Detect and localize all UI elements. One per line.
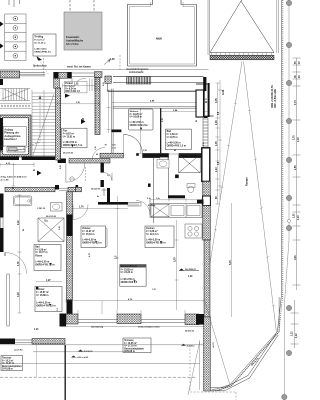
washbasin [51,203,63,212]
south east corner pier [185,314,199,325]
main stair flight treads [32,90,56,160]
svg-text:20.0/20.02: 20.0/20.02 [84,351,93,353]
svg-text:westl. Rst.: westl. Rst. [14,349,24,352]
top mid dashed guide [43,58,45,75]
center dims [73,207,128,209]
south window 1 [78,320,117,323]
svg-text:1,97: 1,97 [46,280,51,282]
svg-text:3,19: 3,19 [18,292,20,297]
facade pier stub [112,130,122,133]
south window 2 [141,320,185,323]
svg-text:90: 90 [196,120,198,122]
svg-text:beachten !: beachten ! [4,138,17,141]
corridor north wall [69,159,110,164]
left edge wall bits [0,140,6,148]
svg-text:86: 86 [174,150,176,152]
svg-text:Kü-Zeile: Kü-Zeile [148,205,155,207]
svg-text:2,38: 2,38 [216,120,218,125]
elevator shaft walls [0,115,31,157]
svg-text:OKRD=FFB 1,5 m: OKRD=FFB 1,5 m [35,264,54,266]
bottom dim 4.79 [66,300,204,302]
svg-text:Flur: Flur [63,130,67,132]
entrance steps [90,79,100,92]
svg-text:90: 90 [96,154,98,156]
Muell house outline [128,0,197,66]
svg-text:1,10: 1,10 [95,146,97,150]
main interior wall band y153 [100,153,124,158]
left vertical dim [18,195,22,313]
svg-text:1,51: 1,51 [112,144,116,146]
living room door arc [136,201,150,215]
kitchen east dim [231,203,233,317]
south wall west corner [60,314,67,327]
svg-text:20.02/0.02: 20.02/0.02 [91,189,100,191]
dashed pool edge [190,345,236,400]
svg-text:1,13: 1,13 [112,147,116,149]
svg-text:L=46=2,50 m: L=46=2,50 m [130,121,144,124]
NE shower [179,154,201,172]
corner bit left edge [0,79,3,85]
north wall hatched pier B [94,72,102,78]
svg-text:4,36: 4,36 [294,255,297,260]
smoke detector symbol [70,177,74,181]
svg-text:Wohnen/Essen: Wohnen/Essen [121,266,138,268]
beveled retaining walls [224,334,278,391]
sink crossed [151,204,200,218]
room partition wall [160,108,161,153]
abstell partition [168,158,170,196]
dim 2.44 [161,111,208,113]
ramp base tick fence [212,53,272,55]
cooktop [185,224,202,238]
Terrasse label bottom center [123,338,151,353]
upper bedroom label [165,129,191,149]
entrance door arc [72,78,86,92]
door arc to bottom room [5,252,27,273]
terrace outline lines [0,344,204,346]
svg-text:L=46=2,50 m: L=46=2,50 m [121,278,135,281]
stair exit door arc [66,163,85,182]
svg-text:U= 24,23 m: U= 24,23 m [121,271,133,274]
svg-text:L=46=2,50 m: L=46=2,50 m [82,238,96,241]
entrance top dim [63,84,96,88]
wardrobe [100,228,107,247]
stair walk line dashed [14,96,40,152]
svg-text:Aufstellfläche: Aufstellfläche [66,38,84,42]
bathtub [13,196,31,206]
svg-text:Terrasse: Terrasse [124,340,134,342]
svg-text:Betonsteinplatten: Betonsteinplatten [124,347,144,350]
ramp top-left guide dims [218,80,222,200]
svg-text:U= 9,34 m: U= 9,34 m [65,87,76,90]
north window band 2 [72,73,95,77]
dim 2,38 over flur [57,102,99,106]
svg-text:2,26: 2,26 [59,226,61,230]
svg-text:2,26: 2,26 [60,165,62,169]
NE niche room [196,90,204,117]
NE corner post [203,77,206,91]
hall door arc [104,173,112,181]
garage retaining wall [204,317,211,391]
svg-text:+6,75: +6,75 [213,342,215,348]
wc room south wall [168,195,185,198]
door stop block [175,175,179,179]
parking/symbol boxes [5,14,26,61]
svg-text:OKB +0,36 DN 16,7%: OKB +0,36 DN 16,7% [272,84,274,108]
leader flag [37,56,43,61]
balcony parapet top [106,83,108,91]
small black marks (door stops) [136,153,139,156]
svg-text:OKRD=FFB1,5m: OKRD=FFB1,5m [34,52,51,54]
svg-text:Lichtschacht: Lichtschacht [129,71,144,74]
svg-text:1,74: 1,74 [294,100,297,105]
svg-text:2,11: 2,11 [203,142,205,146]
svg-text:1,35: 1,35 [216,141,218,146]
abstell washbasin [157,160,169,169]
svg-text:U= 31,20 m: U= 31,20 m [34,42,46,44]
ramp V guide lines [205,62,242,296]
svg-text:1,38: 1,38 [143,150,147,152]
svg-text:U= 15,64 m: U= 15,64 m [82,233,94,236]
svg-text:1,0: 1,0 [107,175,110,177]
measurement line [285,0,289,400]
boundary fence line [0,69,209,71]
ramp triangle [210,0,274,53]
svg-text:L=46=2,50 m: L=46=2,50 m [35,260,49,263]
second boundary offset line [212,297,280,391]
left edge black pier [0,118,3,150]
north wall hatched pier C [105,76,111,83]
podest level flag [65,94,70,98]
svg-text:Vorbau, Rolladen, elektr.: Vorbau, Rolladen, elektr. [138,326,160,329]
light shaft striped bar [127,77,151,85]
retaining wall hatched strip [210,55,274,60]
svg-text:1,01: 1,01 [294,213,296,218]
svg-text:TH-Weg: TH-Weg [34,35,44,38]
svg-text:4 × 1,86: 4 × 1,86 [1,179,10,182]
svg-text:OKRD=FFB1,5m: OKRD=FFB1,5m [130,125,148,127]
svg-text:3,05: 3,05 [216,98,218,103]
svg-text:OKRD=FFB 1,5 m: OKRD=FFB 1,5 m [167,146,186,148]
Terrasse label bottom left [1,356,23,371]
balcony left vertical dim [107,90,111,133]
dim above bottom-left room [36,281,62,283]
svg-text:Du.: Du. [45,221,49,223]
Wohnen/Essen label [120,265,146,287]
flur door arc [92,148,105,161]
Aufzug note box [3,127,26,147]
svg-text:U= 12,14 m: U= 12,14 m [146,233,158,236]
kitchen north wall stub [185,204,197,207]
svg-text:L=46=2,50 m: L=46=2,50 m [167,141,181,144]
svg-text:U= 10,77 m: U= 10,77 m [35,252,47,254]
svg-text:L=46=2,50 m: L=46=2,50 m [146,238,160,241]
svg-text:10*0,08 m: 10*0,08 m [124,351,135,353]
balcony east edge [205,91,214,116]
upper stair flight (vertical treads) [0,89,30,101]
svg-text:78: 78 [105,144,107,146]
svg-text:U= 16,66 m: U= 16,66 m [130,117,142,119]
svg-text:Terrasse: Terrasse [2,358,12,360]
svg-text:2,6: 2,6 [2,122,4,125]
terrace edge below south windows [66,325,204,327]
svg-text:1,01: 1,01 [74,84,79,86]
svg-text:westl. Rst. mit Kanten: westl. Rst. mit Kanten [67,66,91,69]
dashed approach lines [69,0,71,12]
svg-text:L=46=2,50 m: L=46=2,50 m [63,141,77,144]
svg-text:20.0/20.2: 20.0/20.2 [187,345,195,347]
east window strip [203,118,208,148]
svg-text:OKRD=FFB 1,5 m: OKRD=FFB 1,5 m [36,306,55,308]
svg-text:Bad: Bad [35,247,40,249]
interior wall west of living room [67,192,73,300]
Zimmer label center [81,226,106,248]
DG arrow note [179,269,184,271]
svg-text:Bad: Bad [167,131,172,133]
kitchen counter [150,204,202,218]
left upper chain [12,163,16,186]
svg-text:1,2: 1,2 [57,308,59,311]
hall door arc [124,134,143,153]
dashed site line bottom [0,376,196,378]
ramp corridor west edge [207,0,209,55]
window strip bottom left [7,274,10,326]
svg-text:OKRD=FFB 1,5 m: OKRD=FFB 1,5 m [146,243,165,245]
hall east wall [101,163,104,173]
symbol circles [13,16,18,58]
svg-text:2,30: 2,30 [298,137,300,142]
ramp east edge [276,0,278,53]
living room east dim [175,220,179,310]
svg-text:1,76: 1,76 [152,289,156,291]
svg-text:2,22: 2,22 [18,220,20,225]
parapet band [113,77,204,83]
level arrows bottom [78,350,83,352]
svg-text:Fluren: Fluren [35,256,43,258]
east door niche [202,148,210,182]
svg-text:10*0,08 m: 10*0,08 m [2,369,13,371]
Bad/Flur label [34,245,61,271]
boundary stones (grey circles) [282,0,292,399]
TH-Weg label box [33,34,56,56]
svg-text:1,75: 1,75 [294,135,296,140]
svg-text:Podest: Podest [65,82,73,85]
balcony west edge double line [111,89,113,154]
svg-text:Feuerwehr-: Feuerwehr- [66,35,80,39]
east vertical dim chain [216,83,220,204]
svg-text:U= 8,76 m: U= 8,76 m [167,137,178,139]
stair slope diagonals [2,89,54,155]
wall corner ticks bottom [78,310,185,316]
zimmer north wall [98,202,128,205]
svg-text:+0,02 = ±0,00: +0,02 = ±0,00 [77,357,89,359]
corridor door arc [73,205,88,220]
balcony label box [128,109,153,130]
shower head note [102,188,107,196]
stair east wall hatched [56,88,61,160]
bottom wall segment [211,388,225,391]
svg-text:20.02 20.02: 20.02 20.02 [46,216,56,218]
Podest label box [64,82,87,94]
svg-text:Rampe: Rampe [245,177,249,186]
svg-text:20.0/20.02: 20.0/20.02 [185,331,194,333]
interior ticks row above kitchen [150,198,202,202]
svg-text:1,55: 1,55 [295,165,297,170]
svg-text:2,38: 2,38 [76,102,80,104]
svg-text:1,12: 1,12 [296,333,298,338]
svg-text:5,79: 5,79 [175,257,177,262]
landing dotted band [1,105,29,106]
stairwell east wall [95,77,100,134]
svg-text:90: 90 [1,149,3,151]
east wall hatched with door [203,181,211,196]
svg-text:96: 96 [12,188,14,190]
svg-text:1,21: 1,21 [34,329,39,331]
svg-text:U= 12,81 m: U= 12,81 m [63,136,75,138]
Kochen label [145,226,174,248]
Zimmer label bottom-left [35,287,62,312]
svg-text:U= 16,88 m: U= 16,88 m [36,295,48,297]
elevator car symbol [7,147,25,153]
corridor south wall hatched [5,187,55,192]
svg-text:96: 96 [23,229,25,231]
north window band 1 [20,73,46,76]
svg-text:OKF=FFB 1,5: OKF=FFB 1,5 [65,91,80,93]
svg-text:3,5 x 5,5m: 3,5 x 5,5m [66,42,79,46]
svg-text:Müll: Müll [156,37,162,41]
Flur label box [62,128,87,148]
terrace west edge thick [65,345,66,400]
south hatched pier [117,314,141,324]
svg-text:5,15: 5,15 [230,260,232,265]
extra tiny dims sprinkles [2,82,205,311]
facade window lines [113,107,201,108]
upper hall dims [0,146,5,148]
svg-text:OKRD=FFB 1,5: OKRD=FFB 1,5 [121,282,138,284]
svg-text:+2,38: +2,38 [109,59,116,61]
svg-text:Spritzschutz: Spritzschutz [33,64,48,67]
left edge arrows [0,22,4,27]
svg-text:Betonsteinplatten: Betonsteinplatten [2,365,22,368]
property boundary dotted line [212,0,282,389]
vertical dim between upper rooms [139,108,143,153]
right dimension chain [291,58,301,348]
radiator [128,203,141,207]
small open point [287,219,290,222]
stairwell west wall (L) [54,72,72,78]
svg-text:4,79: 4,79 [88,253,91,257]
svg-text:1,10: 1,10 [83,117,85,122]
small level marker [37,171,42,176]
stair bottom wall [0,156,19,160]
balcony dim 4.88 [112,102,204,104]
svg-text:2,62: 2,62 [103,82,105,86]
svg-text:1,12: 1,12 [292,331,294,336]
svg-text:1,91: 1,91 [188,276,193,278]
svg-text:DG 20/20.02: DG 20/20.02 [185,269,196,271]
Feuerwehr-Aufstellflaeche grey pad [64,12,102,50]
svg-text:20.02 20.02: 20.02 20.02 [63,153,73,155]
shower crossed square [38,218,64,242]
svg-text:Überdachung: Überdachung [91,326,104,329]
NE wc [187,184,195,188]
svg-text:Wohnen: Wohnen [130,111,139,113]
svg-text:L=46=2,50 m: L=46=2,50 m [36,301,50,304]
level arrow [104,60,110,65]
north wall hatched pier A [0,71,20,78]
dim line 1.10 [0,164,34,166]
svg-text:1,76: 1,76 [79,206,84,208]
svg-text:3x16: 3x16 [223,89,225,95]
hatch band right of corridor [76,187,82,192]
svg-text:1,01: 1,01 [18,261,20,266]
svg-text:U= 17,10 m: U= 17,10 m [124,346,136,348]
svg-text:1,13: 1,13 [216,167,218,172]
label box pointer triangles [140,128,142,130]
svg-text:L=46=1,50m: L=46=1,50m [34,47,47,50]
room label upper left A [125,154,127,156]
svg-text:2,39: 2,39 [162,118,164,122]
svg-text:OKRD=FFB 1,5 m: OKRD=FFB 1,5 m [82,243,101,245]
svg-text:F= 9,21 m²: F= 9,21 m² [34,38,45,41]
svg-text:1,78/1,35: 1,78/1,35 [37,208,45,210]
svg-text:OKF +0,50m üNN: OKF +0,50m üNN [275,89,277,108]
svg-text:1,20: 1,20 [298,215,300,220]
east wall upper [208,83,210,117]
svg-text:Zimmer: Zimmer [82,228,90,230]
svg-text:Kochen: Kochen [146,228,155,230]
svg-text:88: 88 [33,170,35,172]
